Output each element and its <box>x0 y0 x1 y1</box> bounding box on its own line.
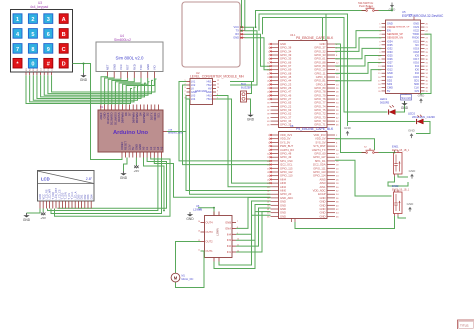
svg-text:SPI1_D1: SPI1_D1 <box>315 159 326 163</box>
ESP32 pin CMD / CLK <box>382 86 386 88</box>
push button SW1 <box>362 10 366 12</box>
svg-text:VDD_ADC: VDD_ADC <box>313 189 326 193</box>
svg-text:IO32: IO32 <box>387 46 393 50</box>
svg-text:GND: GND <box>408 15 413 17</box>
P9 header pin row 15-16 <box>271 160 279 162</box>
svg-text:D10/SS: D10/SS <box>117 112 121 121</box>
wire LV1 loop to P9 row 8 <box>179 82 271 161</box>
display module body (rounded) <box>182 2 240 67</box>
motor M1 wire A <box>176 242 201 274</box>
wire P8 right to ESP32 3 <box>335 48 382 58</box>
svg-text:GPIO_68: GPIO_68 <box>280 71 292 75</box>
wire P9 right to relay 2 <box>335 160 392 196</box>
ESP32 pin IO26 / IO17 <box>382 58 386 60</box>
ESP32 pin SENSOR_VP / TXD0 <box>382 33 386 35</box>
svg-text:P8_EBONE_CAPE_BLK: P8_EBONE_CAPE_BLK <box>296 36 334 40</box>
ESP32 pin SD2 / SD1 <box>382 79 386 81</box>
level converter pin GND <box>187 91 191 93</box>
svg-text:GPIO_88: GPIO_88 <box>314 60 326 64</box>
svg-text:GPIO_65: GPIO_65 <box>280 101 292 105</box>
+5V below LCD <box>41 213 45 216</box>
svg-text:GPIO_77: GPIO_77 <box>314 101 326 105</box>
wire L298N ENA to P9 header <box>236 198 271 229</box>
svg-text:RESET: RESET <box>124 141 128 150</box>
svg-text:SD2: SD2 <box>387 78 393 82</box>
keypad U3 outer body <box>11 10 73 73</box>
svg-text:IO5: IO5 <box>415 53 420 57</box>
wire keypad pin 7 staircase <box>48 75 153 93</box>
P8 header pin row 25-26 <box>271 87 279 89</box>
svg-text:GND: GND <box>280 42 286 46</box>
P8 header pin row 15-16 <box>271 69 279 71</box>
arduino U1 bottom pins right group <box>143 152 145 158</box>
svg-text:I2C2_SDA: I2C2_SDA <box>313 163 326 167</box>
svg-text:LED1: LED1 <box>380 97 387 101</box>
svg-text:IN3: IN3 <box>227 238 232 242</box>
wire arduino A0 jog <box>144 158 165 211</box>
wire keypad pin 6 staircase <box>44 75 149 95</box>
svg-text:GPIO_8: GPIO_8 <box>316 82 326 86</box>
svg-text:GND: GND <box>280 207 286 211</box>
svg-text:D7: D7 <box>128 112 132 116</box>
P9 header pin row 11-12 <box>271 153 279 155</box>
ESP32 pin SENSOR_VN / RXD0 <box>382 37 386 39</box>
svg-text:IO21: IO21 <box>413 39 419 43</box>
keypad key 3 <box>44 14 53 24</box>
svg-text:SD0: SD0 <box>414 82 420 86</box>
wire SIM800L pin RXD to arduino <box>115 78 134 105</box>
svg-text:5mm=20: 5mm=20 <box>401 97 411 100</box>
wire LED1 cathode to gnd <box>395 101 404 112</box>
svg-text:5V: 5V <box>131 147 135 150</box>
svg-text:GPIO_34: GPIO_34 <box>280 49 292 53</box>
svg-text:SYS_RST: SYS_RST <box>313 144 326 148</box>
svg-text:TXD: TXD <box>139 65 143 70</box>
LCD bottom pins <box>39 201 41 209</box>
P8 header pin row 1-2 <box>271 43 279 45</box>
L298N pin OUT4 <box>201 222 205 224</box>
P8 cape header body <box>279 41 328 128</box>
display module right pins <box>240 26 245 28</box>
svg-text:IO4: IO4 <box>415 64 420 68</box>
P9 header pin row 19-20 <box>271 167 279 169</box>
svg-text:AIN4: AIN4 <box>280 177 286 181</box>
buzzer BZ1 body <box>241 91 247 102</box>
svg-text:D11/MOSI: D11/MOSI <box>113 112 117 125</box>
P8 header pin row 33-34 <box>271 102 279 104</box>
svg-text:GPIO_46: GPIO_46 <box>280 93 292 97</box>
wire display pin GND down to P8 header <box>245 38 271 70</box>
keypad key 6 <box>44 29 53 39</box>
svg-text:6: 6 <box>47 32 50 38</box>
svg-text:IN2: IN2 <box>227 244 232 248</box>
svg-text:UART4_TX: UART4_TX <box>312 148 326 152</box>
P8 header pin row 9-10 <box>271 58 279 60</box>
svg-text:D2: D2 <box>146 112 150 116</box>
svg-text:GPIO_111: GPIO_111 <box>313 166 326 170</box>
level converter pin LV1 <box>187 81 191 83</box>
svg-text:GPIO_38: GPIO_38 <box>280 46 292 50</box>
junction dot trunk 1 <box>255 26 257 28</box>
svg-text:3V3: 3V3 <box>414 89 419 93</box>
P9 header pin row 33-34 <box>271 193 279 195</box>
svg-text:AIN0: AIN0 <box>280 189 286 193</box>
junction dot relay1 top <box>394 152 396 154</box>
ESP32 pin IO33 / IO18 <box>382 51 386 53</box>
push button SW2 <box>362 152 366 154</box>
level converter pin HV4 <box>213 98 217 100</box>
P8 header pin row 35-36 <box>271 105 279 107</box>
level converter U2 body <box>190 79 213 105</box>
svg-text:IO34: IO34 <box>387 39 393 43</box>
svg-text:EN01: EN01 <box>392 145 399 149</box>
svg-text:PWR_BUT: PWR_BUT <box>280 144 293 148</box>
svg-text:TXD0: TXD0 <box>412 32 419 36</box>
svg-text:14: 14 <box>198 221 200 223</box>
ESP32 pin IO34 / IO21 <box>382 40 386 42</box>
svg-text:GPIO_37: GPIO_37 <box>280 115 292 119</box>
svg-text:GND: GND <box>408 129 416 133</box>
svg-text:OUT2: OUT2 <box>206 240 214 244</box>
svg-text:VDD_3V3: VDD_3V3 <box>280 133 292 137</box>
svg-text:4: 4 <box>185 91 186 93</box>
ESP32 pin IO32 / IO19 <box>382 47 386 49</box>
svg-text:AIN1: AIN1 <box>320 185 326 189</box>
svg-text:GPIO_39: GPIO_39 <box>280 53 292 57</box>
P9 header pin row 29-30 <box>271 186 279 188</box>
svg-text:AIN3: AIN3 <box>320 181 326 185</box>
P9 header pin row 23-24 <box>271 175 279 177</box>
P9 header pin row 1-2 <box>271 134 279 136</box>
svg-text:GND: GND <box>387 22 393 26</box>
svg-text:GND: GND <box>280 200 286 204</box>
L298N pin OUT2 <box>201 241 205 243</box>
svg-text:GPIO_9: GPIO_9 <box>316 75 326 79</box>
relay EN02 body <box>394 192 403 214</box>
wire gnd branch <box>83 64 85 74</box>
svg-text:IO26: IO26 <box>387 57 393 61</box>
wire relay K2 loop <box>295 216 395 229</box>
P9 cape header body <box>279 132 328 219</box>
svg-text:SYS_5V: SYS_5V <box>280 140 290 144</box>
P8 header pin row 41-42 <box>271 116 279 118</box>
svg-text:A3: A3 <box>152 146 156 150</box>
P9 header pin row 13-14 <box>271 156 279 158</box>
P9 header pin row 37-38 <box>271 201 279 203</box>
svg-text:GND: GND <box>418 94 426 98</box>
svg-text:GPIO_47: GPIO_47 <box>280 90 292 94</box>
svg-text:12: 12 <box>217 80 219 82</box>
wire relay K1 loop <box>388 177 408 187</box>
svg-text:GND: GND <box>320 207 326 211</box>
P8 header pin row 21-22 <box>271 80 279 82</box>
level converter pin GND <box>213 91 217 93</box>
LED2 diode <box>417 119 423 124</box>
ground near keypad <box>83 73 85 75</box>
wire P8 right to ESP32 2 <box>335 38 382 52</box>
svg-text:I2C2_SCL: I2C2_SCL <box>280 163 293 167</box>
wire L298N IN1 to P9 header <box>236 212 271 253</box>
wire display pin VCC to level converter HV1 <box>230 27 254 81</box>
svg-text:D: D <box>62 62 66 68</box>
svg-text:ENA: ENA <box>225 226 231 230</box>
svg-text:VCC: VCC <box>234 25 240 29</box>
ground at push button <box>391 3 393 6</box>
svg-text:IN4: IN4 <box>227 232 232 236</box>
svg-text:2.8": 2.8" <box>86 177 93 181</box>
svg-text:GND: GND <box>413 22 419 26</box>
svg-text:AREF: AREF <box>99 112 103 120</box>
svg-text:D6/PWM: D6/PWM <box>131 112 135 124</box>
L298N bottom pins <box>213 258 215 262</box>
svg-text:+5V: +5V <box>40 216 47 220</box>
svg-text:GPIO_45: GPIO_45 <box>280 75 292 79</box>
svg-text:GND: GND <box>23 218 31 222</box>
ESP32 pin SD3 / SD0 <box>382 83 386 85</box>
svg-text:RXD0: RXD0 <box>412 36 419 40</box>
svg-text:GND: GND <box>320 196 326 200</box>
P9 header pin row 35-36 <box>271 197 279 199</box>
svg-text:GPIO_27: GPIO_27 <box>280 97 292 101</box>
level converter pin HV <box>213 88 217 90</box>
wire L298N IN4 to P9 header <box>236 201 271 234</box>
level converter pin LV4 <box>187 98 191 100</box>
arduino U1 top pins <box>100 105 102 111</box>
LCD module body <box>38 171 95 202</box>
wire top trunk 2 <box>259 14 416 122</box>
ground LED1 <box>404 101 406 103</box>
wire arduino A2 to LCD <box>55 158 171 217</box>
SIM800L bottom pins <box>107 72 109 79</box>
svg-text:D4: D4 <box>139 112 143 116</box>
svg-text:IO0: IO0 <box>415 68 420 72</box>
svg-text:GPIO_114: GPIO_114 <box>313 174 326 178</box>
wire below P9 loop 2 <box>214 212 271 269</box>
L298N pin IN1 <box>232 251 236 253</box>
svg-text:BU1: BU1 <box>241 82 247 86</box>
svg-text:GPIO_23: GPIO_23 <box>280 82 292 86</box>
wire buzzer to ground <box>250 99 251 113</box>
svg-text:GPIO_44: GPIO_44 <box>280 79 292 83</box>
svg-text:GND_ADC: GND_ADC <box>280 196 293 200</box>
keypad key 0 <box>28 58 37 68</box>
wire SIM800L pin VIO to arduino <box>126 78 154 105</box>
L298N pin IN2 <box>232 245 236 247</box>
wire arduino A3 to P9 row 17 <box>154 158 270 198</box>
wire HV3 down to P9 row 14 <box>216 96 271 187</box>
P8 header pin row 23-24 <box>271 83 279 85</box>
P8 header pin row 19-20 <box>271 76 279 78</box>
P9 header pin row 9-10 <box>271 149 279 151</box>
P9 header pin row 45-46 <box>271 215 279 217</box>
P9 header pin row 21-22 <box>271 171 279 173</box>
svg-text:GPIO_78: GPIO_78 <box>314 90 326 94</box>
wire P9 right to relay 1 <box>335 139 375 150</box>
svg-text:3.3V: 3.3V <box>127 144 131 150</box>
svg-text:NC: NC <box>415 43 419 47</box>
svg-text:GPIO_48: GPIO_48 <box>280 152 292 156</box>
wire LED2 cathode to gnd <box>416 122 430 134</box>
svg-text:IO33: IO33 <box>387 50 393 54</box>
wire keypad pin 4 staircase <box>37 75 143 98</box>
svg-text:GND: GND <box>344 126 352 130</box>
P8 header pin row 17-18 <box>271 72 279 74</box>
svg-text:GND: GND <box>320 200 326 204</box>
svg-text:ECAP: ECAP <box>318 192 326 196</box>
wire display pin RX down to P8 header <box>245 34 271 66</box>
wire push button to ground <box>379 7 393 11</box>
svg-text:0: 0 <box>31 62 34 68</box>
junction dot A0 tee <box>163 210 165 212</box>
keypad key # <box>44 58 53 68</box>
P9 header pin row 27-28 <box>271 182 279 184</box>
wire SIM800L pin NET to arduino <box>101 77 108 105</box>
P8 header pin row 7-8 <box>271 54 279 56</box>
svg-text:A2: A2 <box>149 146 153 150</box>
P8 header pin row 43-44 <box>271 120 279 122</box>
ESP32 pin IO14 / IO4 <box>382 65 386 67</box>
wire SIM800L pin GND to arduino <box>105 78 115 105</box>
svg-text:SENSOR_VN: SENSOR_VN <box>387 36 403 40</box>
svg-text:GPIO_117: GPIO_117 <box>313 155 326 159</box>
ESP32 pin IO25 / IO5 <box>382 54 386 56</box>
wire P8 to push button 2 <box>335 44 366 153</box>
svg-text:VIO: VIO <box>153 65 157 70</box>
svg-text:Arduino Uno: Arduino Uno <box>113 130 149 136</box>
wire display pin up to edge 1 <box>241 0 243 27</box>
wire arduino 5V down <box>135 158 137 166</box>
motor M1 wire B <box>176 251 205 288</box>
ESP32 pin IO35 / NC <box>382 44 386 46</box>
svg-text:SENSOR_VP: SENSOR_VP <box>387 32 403 36</box>
P8 header pin row 11-12 <box>271 61 279 63</box>
svg-text:GND: GND <box>387 71 393 75</box>
arduino U1 right pin serial <box>163 131 167 133</box>
keypad key 5 <box>28 29 37 39</box>
svg-text:7: 7 <box>237 221 238 223</box>
wire SIM800L pin GND to arduino <box>123 78 148 105</box>
svg-text:LCD: LCD <box>41 177 50 182</box>
svg-text:GPIO_32: GPIO_32 <box>314 49 326 53</box>
level converter pin HV3 <box>213 95 217 97</box>
P9 header pin row 25-26 <box>271 178 279 180</box>
svg-text:GPIO_115: GPIO_115 <box>280 166 293 170</box>
keypad key 4 <box>13 29 22 39</box>
svg-text:GND: GND <box>320 214 326 218</box>
svg-text:GPIO_79: GPIO_79 <box>314 93 326 97</box>
+5V below arduino <box>134 166 138 169</box>
svg-text:IO15: IO15 <box>413 75 419 79</box>
wire LV4 loop to P9 row 17 <box>187 99 271 194</box>
svg-text:GND: GND <box>280 211 286 215</box>
svg-text:5V: 5V <box>387 89 390 93</box>
LED1 package box 5mm <box>401 95 412 101</box>
wire SIM800L pin RST to arduino <box>112 78 128 105</box>
svg-text:GND: GND <box>247 118 255 122</box>
junction dot button right <box>391 10 393 12</box>
svg-text:GPIO_36: GPIO_36 <box>280 119 292 123</box>
svg-text:VDD33: VDD33 <box>387 25 396 29</box>
wire below P9 loop 1 <box>219 215 271 265</box>
keypad key 8 <box>28 44 37 54</box>
P9 header pin row 31-32 <box>271 190 279 192</box>
svg-text:GPIO_62: GPIO_62 <box>280 112 292 116</box>
wire P8 right to ESP32 6 <box>335 70 382 81</box>
svg-text:IO14: IO14 <box>387 64 393 68</box>
ESP32 top GND stub <box>413 17 415 21</box>
wire +5 supply to L298N top pin <box>198 208 214 216</box>
ESP32 pin IO27 / IO16 <box>382 62 386 64</box>
svg-text:GPIO_89: GPIO_89 <box>314 64 326 68</box>
relay EN01 body <box>394 153 403 175</box>
level converter pin LV3 <box>187 95 191 97</box>
svg-text:L298N: L298N <box>216 228 220 236</box>
svg-text:CLK: CLK <box>414 85 419 89</box>
wire keypad pin 2 staircase <box>30 75 136 102</box>
wire relay K1 to ground <box>398 174 408 177</box>
wire P8 right to ESP32 4 <box>335 55 382 66</box>
L298N pin ENB <box>232 222 236 224</box>
svg-text:SD1: SD1 <box>414 78 420 82</box>
ground below arduino <box>123 171 125 173</box>
svg-text:UART4_RX: UART4_RX <box>280 148 294 152</box>
svg-text:EN: EN <box>387 29 391 33</box>
svg-text:AIN5: AIN5 <box>320 177 326 181</box>
svg-text:GND: GND <box>233 36 239 40</box>
svg-text:GND: GND <box>320 42 326 46</box>
svg-text:GND: GND <box>280 203 286 207</box>
svg-text:13: 13 <box>198 231 200 233</box>
svg-text:A4: A4 <box>156 146 160 150</box>
svg-text:White light_C2290: White light_C2290 <box>412 115 435 119</box>
wire relay K2 loop stub <box>398 216 406 218</box>
ESP32 bottom pin stub <box>405 94 407 99</box>
L298N pin OUT3 <box>201 231 205 233</box>
svg-text:D8: D8 <box>124 112 128 116</box>
svg-text:GND: GND <box>407 202 415 206</box>
wire L298N IN2 to P9 header <box>236 208 271 246</box>
wire arduino gnd down <box>124 158 128 172</box>
svg-text:OUT3: OUT3 <box>206 230 214 234</box>
svg-text:IO19: IO19 <box>413 46 419 50</box>
svg-text:GND: GND <box>186 217 194 221</box>
svg-text:GPIO_69: GPIO_69 <box>280 68 292 72</box>
svg-text:U8: U8 <box>290 124 294 128</box>
svg-text:1: 1 <box>16 17 19 23</box>
svg-text:NET: NET <box>106 64 110 70</box>
L298N pin OUT1 <box>201 250 205 252</box>
wire SW2 to relay1 <box>379 152 395 154</box>
svg-text:D5/PWM: D5/PWM <box>135 112 139 124</box>
svg-text:D9/PWM: D9/PWM <box>121 112 125 124</box>
ESP32 pin IO12 / IO0 <box>382 69 386 71</box>
svg-text:ENB: ENB <box>225 221 231 225</box>
svg-text:GPIO_71: GPIO_71 <box>314 123 326 127</box>
level converter pin HV2 <box>213 84 217 86</box>
keypad key C <box>59 44 68 54</box>
wire trunk stub to gnd <box>347 122 349 127</box>
wire SIM800L pin VCC to arduino <box>108 78 121 105</box>
svg-text:IO22: IO22 <box>413 29 419 33</box>
svg-text:LEVEL_CONVERTER_MODULE_MH: LEVEL_CONVERTER_MODULE_MH <box>190 75 244 79</box>
ESP32 pin GND / IO2 <box>382 72 386 74</box>
wire trunk drop to P8 top <box>322 18 324 41</box>
svg-text:RX: RX <box>235 32 239 36</box>
P8 header pin row 27-28 <box>271 91 279 93</box>
wire LCD vcc <box>42 209 44 213</box>
ground near L298N <box>189 212 191 214</box>
P9 header pin row 43-44 <box>271 212 279 214</box>
